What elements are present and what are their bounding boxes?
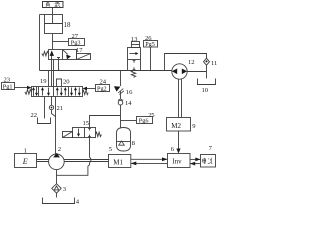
svg-text:Inv: Inv [172,158,182,166]
svg-text:3: 3 [63,186,67,193]
pressure gauge Pg3 [69,39,85,46]
tank 4 [42,198,75,204]
wire M1 to Inv top [131,158,168,160]
tank 22 [37,118,51,124]
valve 15 left cell arrow [77,129,80,137]
wire Inv to battery top [190,158,201,160]
valve 13 bottom cell blocked [133,60,136,69]
load box 负载 [43,2,64,8]
wire 16 to 14 [120,92,122,99]
valve 15 solenoid [63,132,73,138]
wire to Pg3 [53,41,69,43]
pressure gauge Pg5 [144,41,158,48]
check valve 3 [52,184,61,193]
wire to Pg6 [121,120,137,122]
svg-text:5: 5 [109,146,113,153]
svg-text:18: 18 [64,21,72,29]
wire A-port drop [48,71,50,87]
svg-text:Pg5: Pg5 [145,41,155,48]
svg-text:Pg6: Pg6 [139,118,149,125]
shaft pump2 to M1 [64,160,109,162]
cylinder 18 barrel [45,15,63,34]
shaft pump 12 to M2 [179,79,182,118]
valve 15 spring [96,132,102,136]
wire pump 12 right port [187,71,206,73]
pump 12 triangles [172,69,177,75]
valve 15 body [73,128,96,138]
svg-text:12: 12 [188,59,195,66]
svg-text:E: E [22,157,28,166]
valve 17 spring [42,52,49,56]
wire 14 to accumulator [120,105,122,128]
arrow into valve 19 [27,86,32,90]
svg-text:7: 7 [209,145,213,152]
inverter box Inv [168,154,191,168]
label 负载 text strokes [46,2,60,7]
svg-text:2: 2 [58,146,61,153]
valve 15 right cell blocked [88,128,91,136]
svg-text:Pg3: Pg3 [71,40,81,47]
wire check line drop [120,71,122,87]
wire cap-side down [52,34,54,50]
svg-text:9: 9 [192,123,196,130]
valve 20 right spring [83,90,89,94]
pump 12 circle [172,64,187,79]
arrow into Inv [162,157,168,161]
svg-text:Pg2: Pg2 [97,86,107,93]
wire main line W1 [40,70,173,72]
svg-text:M2: M2 [171,122,181,130]
valve 13 body [128,48,141,71]
pilot box on valve 20 [57,79,62,87]
accumulator 8 [117,128,131,152]
valve 13 spring [131,71,135,78]
valve 17 right cell arrow [63,50,71,60]
valve 19 end cell arrows [32,87,38,96]
orifice 21 [49,105,53,109]
svg-text:M1: M1 [113,158,123,166]
battery box 电池 [201,155,216,168]
cylinder 18 rod [52,8,54,24]
valve 13 solenoid [132,42,140,48]
svg-text:6: 6 [171,146,175,153]
arrow into M1 [131,162,137,166]
label 电池 text strokes [203,158,213,164]
wire Pg2 to valve [87,88,96,90]
pressure gauge Pg2 [96,85,110,92]
svg-text:15: 15 [83,120,90,127]
wire check 3 to tank 4 [56,193,58,197]
wire check 11 to tank 10 [206,65,208,78]
wire P-port straight [55,97,57,155]
valve 17 left cell arrow [50,50,60,59]
motor box M2 [167,118,191,132]
arrow into valve 20 [83,87,88,91]
arrow into battery [195,158,200,162]
valve 13 top cell arrow [130,52,139,55]
valve 20 cell4 arrows [70,87,81,96]
svg-text:14: 14 [125,100,132,107]
engine box E [15,154,37,168]
valve 19-20 body [32,87,83,97]
wire valve17 to valve19 twin lines [52,60,54,87]
pump 2 triangle [53,153,60,158]
wire valve17 bottom to main line [59,60,61,71]
wire P-port with orifice 21 [52,97,56,117]
tank 10 [197,79,216,85]
svg-text:20: 20 [63,78,70,85]
svg-text:19: 19 [40,78,47,85]
wire rod-side down left [39,15,41,71]
svg-text:17: 17 [76,47,83,54]
svg-text:22: 22 [31,112,38,119]
wire T-port to tank 22 [44,97,46,119]
valve 20 cell3 arrows [56,87,67,96]
wire Pg1 to valve [15,87,28,89]
arrow into Inv bottom [190,162,195,166]
check valve 11 [204,58,210,65]
pump 2 circle [49,154,65,170]
wire Inv to M1 bottom [131,162,168,164]
wire pump 2 suction [56,170,58,184]
svg-text:21: 21 [57,105,64,112]
wire Pg5 down [150,47,152,71]
svg-text:13: 13 [131,36,138,43]
valve 19 left spring [25,90,32,95]
motor box M1 [109,155,131,168]
check valve 14 [118,99,123,105]
svg-text:Pg1: Pg1 [3,84,13,91]
svg-text:4: 4 [76,199,80,206]
valve 19 cell2 arrows [41,87,50,96]
arrow 6 into Inv [176,149,180,154]
wire pump 12 charge loop [165,54,207,71]
wire valve 15 drain with hop [57,138,92,176]
wire to valve 15 top [90,116,121,128]
svg-text:25: 25 [148,112,155,119]
svg-text:8: 8 [132,140,136,147]
valve 17 solenoid [77,54,91,60]
check valve 16 [114,86,124,94]
svg-text:11: 11 [211,60,217,67]
cylinder 18 piston [45,23,63,25]
svg-text:16: 16 [126,89,133,96]
wire rod-side rail [40,14,45,16]
valve 17 body [49,50,77,60]
pressure gauge Pg6 [137,117,153,124]
wire M2 to Inv [178,131,180,149]
wire battery to Inv bottom [190,163,201,165]
svg-text:10: 10 [202,87,209,94]
pressure gauge Pg1 [2,83,15,90]
shaft E to pump 2 [37,160,49,162]
